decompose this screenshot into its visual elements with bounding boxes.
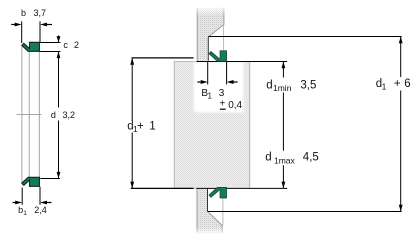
svg-text:4,5: 4,5 bbox=[303, 152, 319, 164]
d1+6 label white background bbox=[375, 77, 411, 91]
label d1min 3,5 bbox=[266, 79, 316, 93]
groove corner line top bbox=[223, 25, 225, 51]
block top edge (over label background) bbox=[197, 61, 288, 63]
d1+1 dimension line bbox=[131, 58, 133, 189]
label d 3,2 bbox=[51, 110, 75, 120]
d1+6 bottom reference line bbox=[208, 211, 402, 213]
label b 3,7 bbox=[21, 8, 46, 18]
b dimension arrow right bbox=[40, 23, 52, 27]
c dimension line tail bbox=[58, 36, 60, 43]
svg-text:1: 1 bbox=[382, 81, 387, 91]
b dimension arrow left bbox=[11, 23, 22, 27]
shaft bar top (right figure) bbox=[197, 7, 225, 61]
b extension line right bbox=[39, 21, 41, 42]
b extension line left bbox=[21, 21, 23, 43]
d1+1 label white background bbox=[126, 121, 154, 133]
svg-text:b: b bbox=[21, 8, 26, 18]
d1+6 arrow up bbox=[399, 37, 403, 44]
label B1 3 plus/minus 0,4 bbox=[201, 88, 242, 111]
housing block (right figure) bbox=[174, 61, 249, 187]
svg-text:3: 3 bbox=[219, 88, 225, 99]
seal bottom (right figure) bbox=[209, 187, 226, 198]
groove corner line bottom bbox=[222, 198, 224, 226]
c / d arrow up bbox=[57, 52, 61, 59]
seal top (right figure) bbox=[209, 51, 226, 62]
ring outer-left edge bbox=[21, 46, 23, 182]
d bottom extension line bbox=[40, 178, 60, 180]
svg-text:c: c bbox=[63, 40, 68, 50]
d1+1 arrow down bbox=[130, 182, 134, 189]
b1 dimension arrow right bbox=[40, 201, 52, 205]
d1+1 top reference line bbox=[132, 57, 194, 59]
seal top (left figure) bbox=[22, 42, 40, 51]
B1 dimension arrow left bbox=[197, 80, 207, 84]
svg-text:1max: 1max bbox=[274, 156, 296, 166]
svg-text:+: + bbox=[137, 121, 144, 133]
svg-text:2,4: 2,4 bbox=[34, 205, 47, 215]
d1max arrow (down) bbox=[282, 182, 286, 189]
ring inner edge bbox=[28, 51, 30, 177]
ring right edge bbox=[38, 51, 40, 177]
b1 dimension arrow left bbox=[13, 201, 23, 205]
c arrow down (top) bbox=[57, 36, 61, 42]
svg-text:2: 2 bbox=[74, 40, 79, 50]
svg-text:+: + bbox=[394, 78, 401, 90]
svg-text:1: 1 bbox=[23, 210, 27, 217]
label d1max 4,5 bbox=[265, 152, 319, 166]
svg-text:3,5: 3,5 bbox=[300, 79, 316, 91]
svg-text:0,4: 0,4 bbox=[228, 100, 242, 111]
svg-text:1: 1 bbox=[149, 121, 155, 133]
svg-text:d: d bbox=[51, 110, 56, 120]
d dimension line bbox=[58, 52, 60, 179]
d1+6 dimension line bbox=[400, 37, 402, 212]
shaft bar bottom (right figure) bbox=[196, 188, 223, 234]
B1 extension line left bbox=[207, 62, 209, 85]
d bottom arrow bbox=[57, 172, 61, 179]
d1max label white background bbox=[264, 151, 320, 166]
d label background bbox=[50, 108, 77, 121]
label c 2 bbox=[63, 40, 79, 50]
B1 extension line right bbox=[226, 62, 228, 85]
b1 extension line left bbox=[21, 188, 23, 205]
block top edge + d1min reference line bbox=[174, 61, 196, 63]
c extension line bottom / d reference top bbox=[40, 51, 60, 53]
d1min arrow (up) bbox=[282, 62, 286, 69]
d1+6 top reference line bbox=[208, 36, 401, 38]
d1min/d1max dimension line bbox=[282, 62, 284, 189]
B1 dimension white background bbox=[194, 62, 244, 113]
d1+1 arrow up bbox=[130, 58, 134, 65]
svg-text:6: 6 bbox=[404, 78, 410, 90]
svg-text:1: 1 bbox=[208, 91, 213, 100]
label d1 + 1 bbox=[127, 121, 156, 134]
b1 extension line right bbox=[39, 187, 41, 205]
center tick bbox=[17, 114, 42, 116]
c extension line top bbox=[40, 42, 60, 44]
d1+1 bottom reference line bbox=[131, 187, 194, 189]
seal bottom (left figure) bbox=[22, 177, 40, 186]
svg-text:1min: 1min bbox=[273, 83, 292, 93]
svg-text:+: + bbox=[219, 99, 225, 110]
block bottom edge + d1max reference line bbox=[174, 187, 196, 189]
svg-text:d: d bbox=[265, 152, 271, 164]
label b1 2,4 bbox=[18, 205, 47, 217]
svg-text:d: d bbox=[266, 79, 272, 91]
label d1 + 6 bbox=[376, 78, 411, 91]
svg-text:3,7: 3,7 bbox=[34, 8, 47, 18]
svg-text:3,2: 3,2 bbox=[63, 110, 76, 120]
d1min label white background bbox=[265, 78, 317, 93]
d1+6 arrow down bbox=[399, 205, 403, 212]
B1 dimension arrow right bbox=[227, 80, 238, 84]
